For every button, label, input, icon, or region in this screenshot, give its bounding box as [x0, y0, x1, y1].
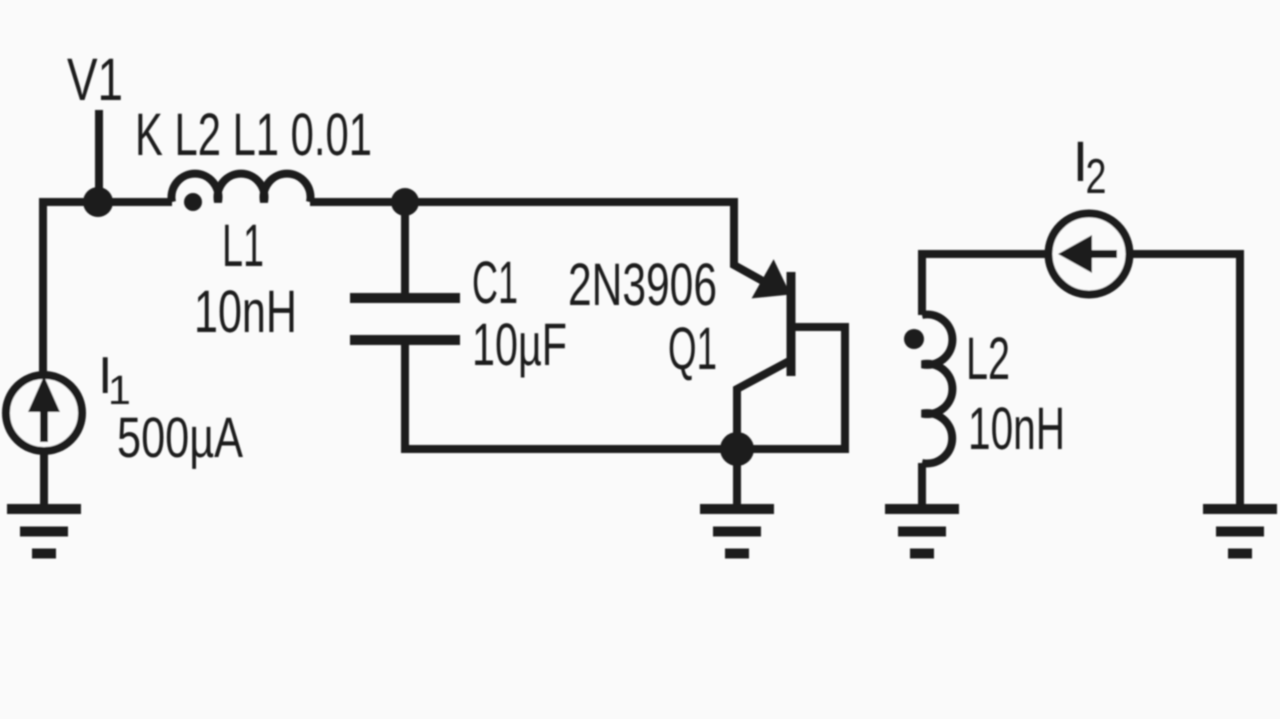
wire C1 top lead — [401, 202, 409, 294]
svg-text:2N3906: 2N3906 — [568, 251, 717, 318]
inductor L2 — [922, 314, 952, 463]
capacitor C1 — [350, 298, 460, 340]
node junction dot V1 — [83, 187, 113, 217]
wire inductor L1 to junction to top-right corner down to Q1 emitter — [310, 202, 779, 290]
svg-text:V1: V1 — [67, 46, 123, 113]
current source I1 circle — [6, 375, 82, 451]
node junction dot bottom rail — [720, 432, 754, 466]
svg-text:10nH: 10nH — [194, 278, 297, 345]
svg-text:C1: C1 — [472, 249, 518, 316]
svg-text:10nH: 10nH — [968, 395, 1065, 462]
svg-text:2: 2 — [1086, 150, 1107, 204]
svg-text:L1: L1 — [222, 212, 264, 279]
transistor Q1 emitter arrow — [752, 259, 791, 298]
ground I1 — [7, 509, 81, 554]
transistor Q1 base bar — [787, 272, 796, 376]
wire L2 bottom lead — [918, 463, 926, 505]
I2 arrow head — [1058, 235, 1092, 273]
wire I1 bottom lead — [40, 454, 48, 505]
I1 arrow shaft — [40, 400, 48, 442]
svg-text:500µA: 500µA — [117, 406, 243, 470]
wire Q1 collector to bottom junction — [737, 360, 791, 505]
wire right rail: corner over I2 down to right ground — [922, 254, 1240, 505]
svg-text:L2: L2 — [966, 325, 1010, 392]
ground right — [1203, 509, 1277, 554]
I1 arrow head — [28, 376, 60, 412]
svg-text:Q1: Q1 — [668, 315, 717, 382]
svg-text:K L2 L1 0.01: K L2 L1 0.01 — [135, 101, 372, 168]
current source I2 circle — [1049, 214, 1130, 295]
wire C1 bottom lead and bottom rail — [405, 344, 849, 449]
inductor L1 — [171, 174, 310, 202]
L1 phase dot — [184, 193, 202, 211]
I2 arrow shaft — [1090, 250, 1117, 258]
ground Q1 — [700, 509, 774, 554]
wire Q1 base loop — [793, 327, 845, 449]
wire top-left rail and left drop to I1 — [43, 202, 172, 372]
ground L2 — [885, 509, 959, 554]
node junction dot C1 top — [391, 188, 419, 216]
svg-text:10µF: 10µF — [472, 311, 567, 378]
wire V1 stem — [95, 110, 103, 202]
L2 phase dot — [904, 329, 924, 349]
